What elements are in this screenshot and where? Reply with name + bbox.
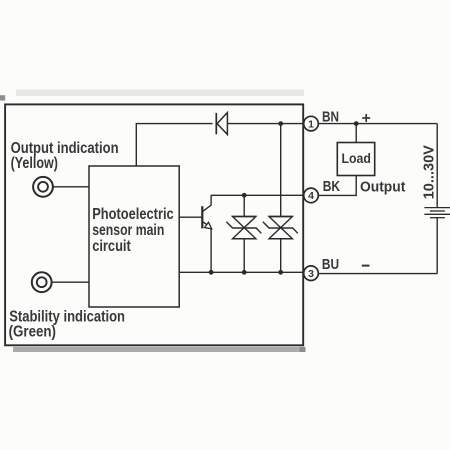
- svg-text:Photoelectric: Photoelectric: [92, 206, 174, 223]
- svg-text:Output: Output: [360, 180, 405, 196]
- transistor Q1 base wire: [179, 216, 202, 218]
- wire: main circuit top to diode rail: [136, 124, 212, 166]
- wire: load bottom to BK wire: [318, 176, 356, 196]
- junction: load top node: [354, 121, 359, 126]
- svg-text:circuit: circuit: [92, 238, 131, 255]
- wire: green LED to main circuit: [52, 281, 89, 283]
- label plus: [362, 114, 370, 122]
- sensor enclosure outline: [5, 104, 303, 345]
- svg-text:Load: Load: [342, 151, 371, 166]
- terminal 1: [304, 116, 319, 131]
- svg-text:BK: BK: [323, 179, 341, 195]
- junction: emitter on BU rail: [209, 270, 214, 275]
- junction: Z1 on BU rail: [242, 270, 247, 275]
- terminal 3: [304, 266, 319, 281]
- label: Output indication (Yellow): [11, 140, 119, 172]
- wire: collector rail to terminal 4: [211, 194, 304, 196]
- svg-text:sensor main: sensor main: [92, 222, 164, 239]
- label minus: [362, 265, 370, 267]
- battery 10...30V: [424, 208, 450, 218]
- load box: [337, 143, 374, 176]
- wire: yellow LED to main circuit: [54, 186, 90, 188]
- wire: BN node down to suppressor Z2: [280, 124, 282, 217]
- LED indicator output yellow: [33, 177, 53, 197]
- diode D1 reverse polarity protection: [216, 113, 227, 135]
- svg-text:BU: BU: [322, 257, 339, 273]
- photoelectric sensor main circuit block: [89, 166, 179, 307]
- svg-text:4: 4: [308, 190, 314, 202]
- wire: Z1 bottom lead: [243, 239, 245, 272]
- svg-text:(Yellow): (Yellow): [11, 155, 58, 172]
- svg-text:1: 1: [308, 118, 314, 130]
- svg-text:3: 3: [308, 268, 314, 280]
- wire: diode to terminal 1: [228, 123, 304, 125]
- label: Stability indication (Green): [9, 309, 125, 341]
- surge suppressor Z2 bidirectional zener: [263, 217, 298, 239]
- terminal 4: [304, 188, 319, 203]
- junction: Z2 on BU rail: [278, 270, 283, 275]
- junction: BN rail node: [278, 121, 283, 126]
- surge suppressor Z1 bidirectional zener: [226, 217, 261, 239]
- wire: Z2 bottom lead: [280, 239, 282, 272]
- junction: collector rail and Z1: [242, 193, 247, 198]
- wire: node down to load: [355, 124, 357, 143]
- wire: terminal 1 to supply plus: [318, 123, 437, 125]
- label: Photoelectric sensor main circuit: [92, 206, 174, 255]
- svg-text:(Green): (Green): [9, 324, 56, 341]
- wire: supply right rail top: [436, 124, 438, 208]
- wire: terminal 3 to supply minus: [318, 273, 437, 275]
- LED indicator stability green: [32, 272, 52, 292]
- wire: emitter rail to terminal 3: [179, 271, 304, 273]
- transistor Q1 NPN output: [202, 195, 211, 272]
- wire: supply right rail bottom: [436, 218, 438, 274]
- wire: Z1 top lead: [243, 195, 245, 216]
- svg-text:10...30V: 10...30V: [421, 145, 438, 199]
